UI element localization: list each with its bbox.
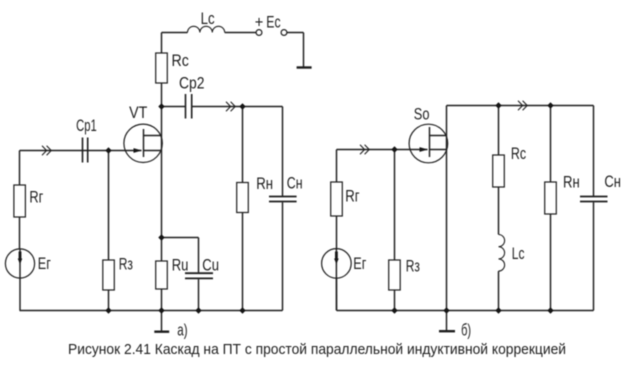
svg-text:Rc: Rc xyxy=(511,144,527,163)
svg-text:Rг: Rг xyxy=(29,187,43,206)
svg-text:Rг: Rг xyxy=(345,187,359,206)
svg-text:Cu: Cu xyxy=(202,256,219,275)
svg-text:Rз: Rз xyxy=(119,255,133,274)
svg-text:Cн: Cн xyxy=(604,172,621,191)
svg-text:Cp2: Cp2 xyxy=(179,73,205,92)
svg-text:Lc: Lc xyxy=(512,244,525,263)
svg-text:Cн: Cн xyxy=(287,174,303,193)
svg-text:а): а) xyxy=(177,320,187,339)
svg-text:Rн: Rн xyxy=(563,172,580,191)
svg-text:Cp1: Cp1 xyxy=(76,116,97,135)
svg-text:Rн: Rн xyxy=(256,174,273,193)
svg-text:Ec: Ec xyxy=(266,12,281,31)
svg-text:Rз: Rз xyxy=(406,257,420,276)
svg-text:Lc: Lc xyxy=(201,9,215,28)
svg-text:VT: VT xyxy=(129,103,147,122)
svg-text:Рисунок 2.41 Каскад на ПТ с пр: Рисунок 2.41 Каскад на ПТ с простой пара… xyxy=(68,341,566,358)
svg-text:Ег: Ег xyxy=(353,254,366,273)
svg-text:So: So xyxy=(414,105,430,124)
svg-text:Ег: Ег xyxy=(38,254,51,273)
svg-text:б): б) xyxy=(461,321,471,340)
svg-text:+: + xyxy=(255,12,264,31)
svg-text:Ru: Ru xyxy=(172,256,189,275)
svg-text:Rc: Rc xyxy=(172,51,190,70)
